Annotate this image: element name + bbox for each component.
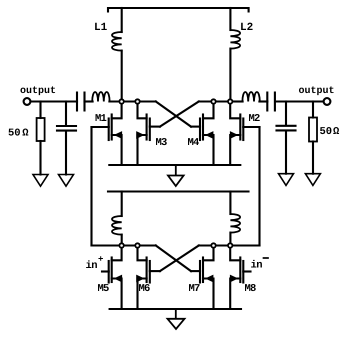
svg-text:50: 50 — [8, 128, 21, 140]
label M3 — [156, 137, 168, 149]
inductor series left — [92, 92, 109, 102]
label M8 — [245, 283, 257, 295]
label in+ — [86, 255, 104, 273]
svg-text:M8: M8 — [245, 283, 257, 295]
ground left capacitor — [59, 175, 74, 187]
source rail top stage — [109, 164, 240, 166]
svg-text:M1: M1 — [95, 113, 107, 125]
wire resistor right drop — [312, 102, 314, 118]
output terminal left — [24, 98, 31, 105]
wire series right — [259, 100, 267, 102]
node bottom left inner — [135, 243, 139, 247]
wire L1 bottom — [121, 51, 123, 102]
wire shunt capacitor left drop — [65, 102, 67, 126]
wire gate M1 down left side — [90, 127, 92, 246]
wire L1 top — [121, 8, 123, 32]
transistor M5 — [102, 246, 122, 310]
wire cross diagonal top left — [156, 102, 191, 127]
capacitor shunt left — [57, 126, 76, 131]
svg-text:output: output — [20, 86, 56, 97]
wire node to coil right — [230, 100, 242, 102]
svg-text:output: output — [299, 86, 335, 97]
wire bottom-right inductor top — [229, 192, 231, 215]
transistor M4 — [191, 102, 214, 166]
svg-text:Ω: Ω — [22, 128, 29, 140]
inductor series right — [242, 92, 259, 102]
power rail top — [108, 8, 249, 12]
label 50ohm right — [320, 126, 341, 138]
capacitor series right — [267, 93, 275, 111]
transistor M1 — [92, 102, 122, 166]
wire below resistor right — [312, 142, 314, 174]
label output right — [299, 86, 335, 97]
wire below resistor left — [39, 141, 41, 175]
wire below shunt capacitor right — [285, 131, 287, 173]
ground right resistor — [305, 174, 320, 186]
label M7 — [189, 283, 201, 295]
inductor L2 — [230, 30, 240, 49]
transistor M8 — [230, 246, 250, 310]
transistor M3 — [137, 102, 160, 166]
wire bottom-right inductor bottom — [229, 233, 231, 246]
wire output right — [275, 100, 323, 102]
resistor 50ohm left — [37, 118, 45, 141]
ground left resistor — [33, 175, 48, 187]
wire bottom node row left — [92, 244, 156, 246]
capacitor shunt right — [277, 126, 296, 131]
resistor 50ohm right — [309, 118, 317, 142]
label in- — [251, 260, 263, 272]
svg-text:in: in — [251, 260, 263, 272]
node top M3 drain — [135, 99, 139, 103]
wire cross diagonal bottom right — [160, 246, 199, 272]
wire output left — [31, 100, 78, 102]
label M2 — [249, 113, 261, 125]
svg-text:L1: L1 — [94, 22, 108, 34]
label M4 — [188, 137, 200, 149]
wire series left — [85, 100, 93, 102]
wire cross diagonal bottom left — [156, 246, 191, 272]
ground bottom — [168, 309, 185, 329]
transistor M7 — [191, 246, 214, 310]
wire resistor left drop — [39, 102, 41, 119]
label M6 — [139, 283, 151, 295]
wire L2 top — [229, 8, 231, 30]
label L1 — [94, 22, 108, 34]
svg-text:M6: M6 — [139, 283, 151, 295]
node top M4 drain — [211, 99, 215, 103]
wire bottom-left inductor top — [121, 192, 123, 217]
capacitor series left — [77, 93, 85, 111]
transistor M2 — [230, 102, 259, 166]
ground mid — [168, 165, 184, 186]
node top L2 — [228, 99, 232, 103]
wire top node row right — [199, 100, 231, 102]
label M1 — [95, 113, 107, 125]
node bottom right outer — [228, 243, 232, 247]
label 50ohm left — [8, 128, 29, 140]
svg-text:M4: M4 — [188, 137, 200, 149]
wire gate M2 down right side — [258, 127, 260, 246]
ground right capacitor — [279, 174, 294, 186]
inter-stage rail — [108, 190, 249, 192]
svg-text:L2: L2 — [240, 22, 253, 34]
wire bottom-left inductor bottom — [121, 235, 123, 246]
svg-text:+: + — [98, 255, 103, 265]
svg-text:Ω: Ω — [333, 126, 340, 138]
label L2 — [240, 22, 253, 34]
label M5 — [98, 283, 110, 295]
svg-text:M7: M7 — [189, 283, 201, 295]
svg-text:M3: M3 — [156, 137, 168, 149]
wire bottom node row right — [199, 244, 260, 246]
node top L1 — [119, 99, 123, 103]
wire L2 bottom — [229, 49, 231, 102]
node bottom left outer — [119, 243, 123, 247]
transistor M6 — [137, 246, 160, 310]
inductor bottom left — [112, 216, 122, 235]
svg-text:50: 50 — [320, 126, 333, 138]
wire shunt capacitor right drop — [285, 102, 287, 125]
inductor L1 — [112, 32, 122, 51]
inductor bottom right — [230, 214, 240, 233]
label output left — [20, 86, 56, 97]
wire below shunt capacitor left — [65, 132, 67, 175]
svg-text:M2: M2 — [249, 113, 261, 125]
source rail bottom stage — [110, 308, 241, 310]
wire coil to node left — [109, 100, 155, 102]
output terminal right — [324, 98, 331, 105]
svg-text:in: in — [86, 260, 98, 272]
node bottom right inner — [211, 243, 215, 247]
svg-text:M5: M5 — [98, 283, 110, 295]
wire cross diagonal top right — [160, 102, 199, 127]
